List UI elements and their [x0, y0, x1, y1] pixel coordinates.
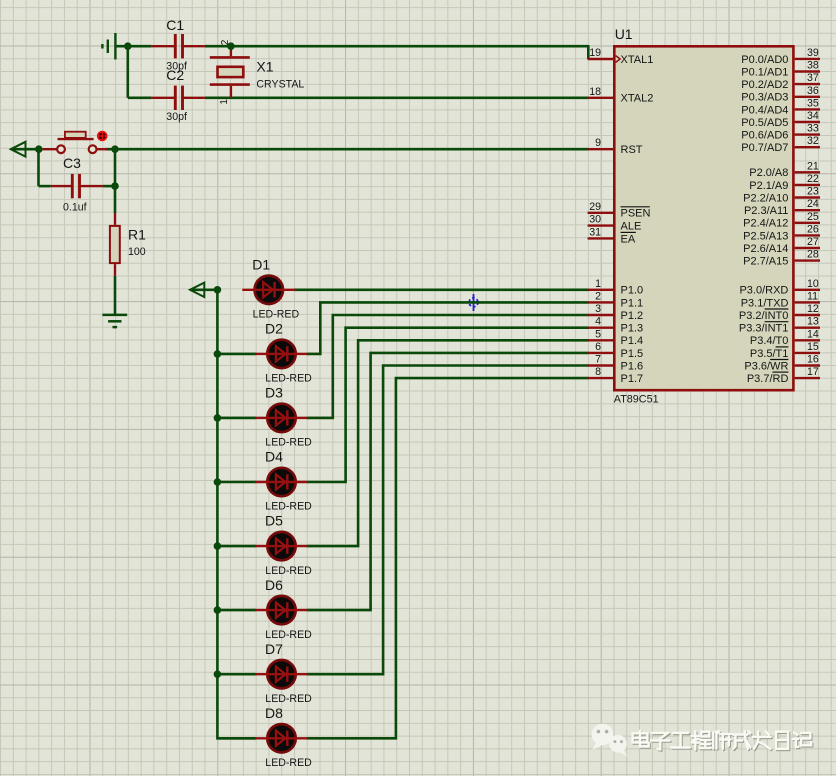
svg-text:37: 37	[807, 72, 819, 84]
svg-text:ALE: ALE	[621, 221, 642, 233]
svg-text:D2: D2	[265, 321, 283, 337]
svg-text:LED-RED: LED-RED	[265, 437, 312, 449]
svg-text:1: 1	[595, 278, 601, 290]
svg-text:P1.0: P1.0	[621, 285, 644, 297]
svg-text:P3.7/RD: P3.7/RD	[747, 373, 789, 385]
svg-text:32: 32	[807, 135, 819, 147]
svg-text:P0.7/AD7: P0.7/AD7	[741, 142, 788, 154]
svg-text:21: 21	[807, 160, 819, 172]
svg-text:D8: D8	[265, 705, 283, 721]
svg-text:P2.3/A11: P2.3/A11	[744, 205, 788, 217]
svg-text:LED-RED: LED-RED	[265, 629, 312, 641]
svg-text:13: 13	[807, 316, 819, 328]
svg-text:36: 36	[807, 85, 819, 97]
svg-text:4: 4	[595, 316, 601, 328]
svg-text:P2.5/A13: P2.5/A13	[743, 230, 788, 242]
svg-text:P1.1: P1.1	[621, 297, 644, 309]
svg-text:35: 35	[807, 97, 819, 109]
svg-text:D6: D6	[265, 577, 283, 593]
svg-text:D1: D1	[252, 256, 270, 272]
svg-text:12: 12	[807, 303, 819, 315]
svg-text:P0.6/AD6: P0.6/AD6	[741, 130, 788, 142]
svg-text:P0.2/AD2: P0.2/AD2	[741, 79, 788, 91]
svg-text:5: 5	[595, 328, 601, 340]
svg-text:D3: D3	[265, 385, 283, 401]
svg-text:P0.1/AD1: P0.1/AD1	[741, 66, 788, 78]
svg-text:19: 19	[589, 47, 601, 59]
svg-text:LED-RED: LED-RED	[265, 565, 312, 577]
svg-text:2: 2	[595, 290, 601, 302]
svg-text:16: 16	[807, 354, 819, 366]
svg-text:D7: D7	[265, 641, 283, 657]
svg-text:P3.2/INT0: P3.2/INT0	[739, 310, 789, 322]
svg-text:P2.0/A8: P2.0/A8	[749, 167, 788, 179]
svg-text:24: 24	[807, 198, 819, 210]
svg-text:31: 31	[589, 226, 601, 238]
svg-text:LED-RED: LED-RED	[265, 757, 312, 769]
svg-text:P1.7: P1.7	[621, 373, 644, 385]
svg-text:EA: EA	[621, 233, 636, 245]
svg-text:29: 29	[589, 201, 601, 213]
svg-text:P1.4: P1.4	[621, 335, 644, 347]
svg-text:CRYSTAL: CRYSTAL	[256, 79, 304, 91]
svg-text:RST: RST	[621, 144, 643, 156]
svg-text:R1: R1	[128, 226, 146, 242]
svg-text:14: 14	[807, 328, 819, 340]
svg-text:XTAL2: XTAL2	[621, 93, 654, 105]
svg-text:P1.6: P1.6	[621, 360, 644, 372]
svg-text:30: 30	[589, 214, 601, 226]
svg-text:8: 8	[595, 366, 601, 378]
svg-text:C1: C1	[166, 17, 184, 33]
svg-text:C2: C2	[166, 67, 184, 83]
svg-text:25: 25	[807, 211, 819, 223]
svg-text:P3.5/T1: P3.5/T1	[750, 348, 789, 360]
svg-text:XTAL1: XTAL1	[621, 54, 654, 66]
svg-text:7: 7	[595, 354, 601, 366]
svg-text:P1.5: P1.5	[621, 348, 644, 360]
svg-text:P2.1/A9: P2.1/A9	[749, 180, 788, 192]
svg-text:26: 26	[807, 223, 819, 235]
svg-text:6: 6	[595, 341, 601, 353]
svg-text:11: 11	[807, 290, 818, 302]
svg-text:P3.1/TXD: P3.1/TXD	[741, 297, 789, 309]
svg-text:LED-RED: LED-RED	[265, 501, 312, 513]
svg-text:P2.4/A12: P2.4/A12	[743, 218, 788, 230]
svg-text:30pf: 30pf	[166, 111, 187, 123]
svg-text:33: 33	[807, 123, 819, 135]
svg-text:P1.3: P1.3	[621, 323, 644, 335]
svg-text:27: 27	[807, 236, 819, 248]
svg-text:34: 34	[807, 110, 819, 122]
svg-text:P3.6/WR: P3.6/WR	[744, 360, 788, 372]
svg-text:22: 22	[807, 173, 819, 185]
svg-text:15: 15	[807, 341, 819, 353]
svg-text:38: 38	[807, 60, 819, 72]
svg-text:LED-RED: LED-RED	[253, 309, 300, 321]
svg-text:23: 23	[807, 186, 819, 198]
svg-text:U1: U1	[615, 26, 633, 42]
svg-text:P2.2/A10: P2.2/A10	[743, 192, 788, 204]
svg-text:P0.3/AD3: P0.3/AD3	[741, 92, 788, 104]
svg-text:P0.5/AD5: P0.5/AD5	[741, 117, 788, 129]
svg-text:P1.2: P1.2	[621, 310, 644, 322]
svg-text:100: 100	[128, 246, 146, 258]
svg-text:P2.6/A14: P2.6/A14	[743, 243, 788, 255]
svg-text:P3.4/T0: P3.4/T0	[750, 335, 789, 347]
svg-text:0.1uf: 0.1uf	[63, 202, 87, 214]
svg-text:P2.7/A15: P2.7/A15	[743, 256, 788, 268]
svg-text:D5: D5	[265, 513, 283, 529]
svg-text:LED-RED: LED-RED	[265, 373, 312, 385]
svg-text:C3: C3	[63, 155, 81, 171]
svg-text:P0.4/AD4: P0.4/AD4	[741, 104, 788, 116]
svg-text:1: 1	[219, 99, 230, 105]
svg-text:LED-RED: LED-RED	[265, 693, 312, 705]
svg-text:P3.3/INT1: P3.3/INT1	[739, 323, 789, 335]
svg-text:P0.0/AD0: P0.0/AD0	[741, 54, 788, 66]
svg-text:18: 18	[589, 86, 601, 98]
svg-text:PSEN: PSEN	[621, 208, 651, 220]
svg-text:17: 17	[807, 366, 819, 378]
svg-text:D4: D4	[265, 449, 283, 465]
svg-text:3: 3	[595, 303, 601, 315]
svg-text:AT89C51: AT89C51	[614, 393, 659, 405]
svg-text:9: 9	[595, 137, 601, 149]
svg-text:P3.0/RXD: P3.0/RXD	[739, 285, 788, 297]
svg-text:X1: X1	[256, 58, 273, 74]
svg-text:10: 10	[807, 278, 819, 290]
svg-text:28: 28	[807, 249, 819, 261]
svg-text:39: 39	[807, 47, 819, 59]
